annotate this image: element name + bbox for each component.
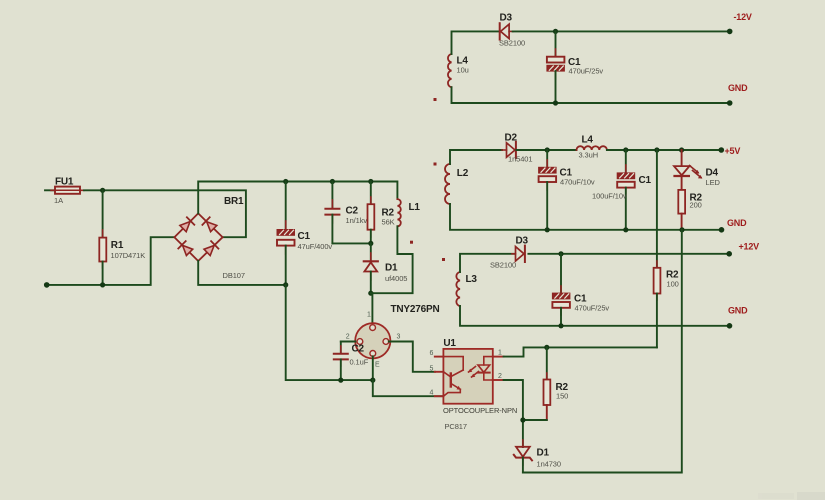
wire L2 top to D2 [450,150,502,164]
svg-text:L1: L1 [409,202,421,213]
svg-text:uf4005: uf4005 [385,274,407,283]
wire L1 bottom to drain [371,226,413,293]
wire DC- rail to TNY source [286,285,373,380]
capacitor C1 470uF/25v (-12V reversed) [547,31,603,103]
svg-text:U1: U1 [443,338,456,349]
inductor L3 secondary winding [456,272,477,306]
svg-text:LED: LED [706,178,721,187]
svg-text:D1: D1 [385,263,398,274]
node junction C2 top rail [330,179,335,184]
svg-text:3.3uH: 3.3uH [579,151,599,160]
svg-text:FU1: FU1 [55,177,74,188]
node junction C1 100uF top [623,147,628,152]
svg-text:D3: D3 [516,236,529,247]
node junction FU1/R1 [100,188,105,193]
node junction zener top [520,417,525,422]
node junction R1 bottom [100,282,105,287]
diode D1 uf4005 clamp [364,243,408,293]
fuse FU1 [51,177,84,206]
svg-text:150: 150 [556,392,568,401]
bridge diode right-top [202,217,216,231]
svg-text:100uF/10v: 100uF/10v [592,192,627,201]
svg-text:C2: C2 [352,344,365,355]
svg-text:470uF/25v: 470uF/25v [575,304,610,313]
svg-text:3: 3 [397,334,401,341]
svg-text:L3: L3 [466,274,478,285]
svg-text:D1: D1 [537,448,550,459]
wire TNY E pin to rail [372,356,374,380]
svg-text:L4: L4 [582,135,594,146]
op-amp U1 optocoupler PC817 [430,338,518,431]
svg-text:1: 1 [498,350,502,357]
svg-text:1n/1kv: 1n/1kv [346,216,368,225]
wire GND rail +12V [460,306,730,326]
node junction C1 100 bottom [623,227,628,232]
wire zener node to R2 150 bottom [523,419,547,421]
TNY276PN switcher IC body [346,304,440,369]
node junction R2 100 feed [654,147,659,152]
svg-text:C1: C1 [639,175,652,186]
svg-text:47uF/400v: 47uF/400v [298,242,333,251]
inductor L4 10u winding [448,54,469,87]
resistor R2 200 [678,190,702,230]
svg-text:GND: GND [728,306,748,316]
bridge diode left-top [180,217,194,231]
svg-text:1n5401: 1n5401 [508,155,532,164]
inductor L4 3.3uH filter [577,135,607,160]
pin 4 stub [435,395,444,397]
diode D3 SB2100 [490,236,529,270]
svg-text:TNY276PN: TNY276PN [391,304,440,315]
SECTION: out5v [434,133,748,233]
wire L4 to +5V terminal [607,149,721,151]
bridge rectifier BR1 DB107 [174,196,245,280]
internal phototransistor [443,357,463,397]
SECTION: primary [44,177,421,381]
node +12V terminal [726,251,732,257]
svg-text:1A: 1A [54,196,63,205]
SECTION: tny [334,304,444,396]
wire zener return to GND [523,230,682,473]
polarity dot L1 [410,241,413,244]
capacitor C1 470uF/25v [552,254,609,326]
svg-text:200: 200 [690,201,702,210]
bridge diode left-bottom [178,241,192,255]
capacitor C1 470uF/10v [539,150,595,230]
node GND terminal -12V [727,100,733,106]
zener diode D1 1n4730 [514,440,561,473]
svg-text:GND: GND [727,218,747,228]
node junction source rail [370,378,375,383]
svg-text:2: 2 [346,334,350,341]
capacitor C2 1n/1kv snubber [325,182,367,244]
resistor R2 100 with feed line [654,150,679,347]
svg-text:DB107: DB107 [223,271,245,280]
svg-text:2: 2 [498,373,502,380]
svg-text:SB2100: SB2100 [499,39,525,48]
polarity dot L2 [434,163,437,166]
svg-text:R1: R1 [111,240,124,251]
svg-text:470uF/25v: 470uF/25v [569,67,604,76]
resistor R1 (varistor 107D471K) [99,190,145,285]
svg-text:PC817: PC817 [445,422,467,431]
svg-text:BR1: BR1 [224,196,244,207]
svg-text:L2: L2 [457,168,469,179]
svg-text:D4: D4 [706,168,719,179]
node junction C1 top +12V [558,251,563,256]
svg-text:1n4730: 1n4730 [537,460,561,469]
svg-text:C2: C2 [346,206,359,217]
wire snubber bottom [332,242,370,244]
node -12V terminal [727,29,733,35]
capacitor C2 0.1uF bypass [334,342,369,381]
SECTION: out12v [442,150,759,347]
svg-text:6: 6 [430,350,434,357]
svg-text:E: E [375,362,380,369]
svg-text:56K: 56K [382,218,395,227]
node GND terminal +12V [727,323,733,329]
capacitor C1 47uF/400v [277,182,332,285]
wire L4 top to D3 [452,31,499,54]
svg-text:GND: GND [728,83,748,93]
node junction C1 bottom +12V [558,323,563,328]
svg-text:-12V: -12V [734,12,752,22]
node junction C1 470 bottom [545,227,550,232]
svg-text:+5V: +5V [725,146,741,156]
svg-text:D2: D2 [505,133,518,144]
SECTION: feedback [504,230,682,473]
wire bridge DC- down [198,261,286,285]
svg-text:+12V: +12V [739,242,760,252]
node +5V terminal [719,147,725,153]
polarity dot L3 [442,258,445,261]
node junction C1 470uF top [545,147,550,152]
diode D3 SB2100 (-12V) [499,13,525,48]
svg-text:SB2100: SB2100 [490,261,516,270]
wire U1 pin1 to feedback node [504,347,657,356]
wire TNY pin3 to U1 pin5 [389,342,435,372]
wire GND rail -12V [452,87,730,103]
SECTION: outm12v [434,12,752,106]
resistor R2 56K [368,182,395,244]
internal LED [468,357,493,380]
node junction C1 bottom / DC- [283,282,288,287]
svg-text:10u: 10u [457,66,469,75]
node junction C1 top -12V [553,29,558,34]
inductor L2 secondary winding [445,164,469,204]
wire D3 to +12V terminal [528,253,729,255]
inductor L1 primary winding [397,199,420,226]
node junction drain [368,291,373,296]
svg-text:107D471K: 107D471K [111,251,146,260]
svg-text:OPTOCOUPLER-NPN: OPTOCOUPLER-NPN [443,406,517,415]
capacitor C1 100uF/10v [592,150,652,230]
node AC neutral endpoint [44,282,50,288]
wire bridge DC+ to top rail [198,182,397,214]
svg-text:1: 1 [367,312,371,319]
diode D2 1n5401 [502,133,532,164]
pin 5 stub [435,371,444,373]
node junction R2 150 top [544,345,549,350]
resistor R2 150 [544,347,569,420]
node junction snubber/D1 [368,241,373,246]
node junction C1 top rail [283,179,288,184]
watermark [758,492,825,500]
wire drain to TNY pin1 [371,293,373,323]
wire D2 to L4 [516,149,576,151]
wire TNY pin2 to C2 [341,341,356,343]
svg-text:5: 5 [430,366,434,373]
pin 1 stub [493,356,504,358]
node junction C1 bottom -12V [553,100,558,105]
wire AC neutral input [47,237,175,285]
svg-text:4: 4 [430,390,434,397]
wire GND rail +5V [450,204,722,230]
svg-text:100: 100 [667,280,679,289]
SECTION: opto [430,338,518,431]
wire D3 to -12V terminal [513,30,730,32]
node junction R2 200 bottom [679,227,684,232]
svg-text:D3: D3 [500,13,513,24]
svg-text:C1: C1 [298,231,311,242]
wire U1 pin2 to zener node [504,380,523,447]
wire source rail to U1 pin4 [373,380,444,396]
svg-text:0.1uF: 0.1uF [350,358,369,367]
svg-text:470uF/10v: 470uF/10v [560,178,595,187]
node junction R2 top rail [368,179,373,184]
node junction C2 bottom [338,378,343,383]
polarity dot L4 [434,98,437,101]
LED D4 [674,150,720,190]
wire L3 top to D3 [460,254,514,272]
bridge diode right-bottom [204,241,218,255]
pin 2 stub [493,379,504,381]
node junction LED branch [679,147,684,152]
node GND terminal +5V [719,227,725,233]
wire AC live input [45,189,55,191]
wire FU1 to bridge AC right [84,190,246,237]
pin 6 stub [435,356,444,358]
